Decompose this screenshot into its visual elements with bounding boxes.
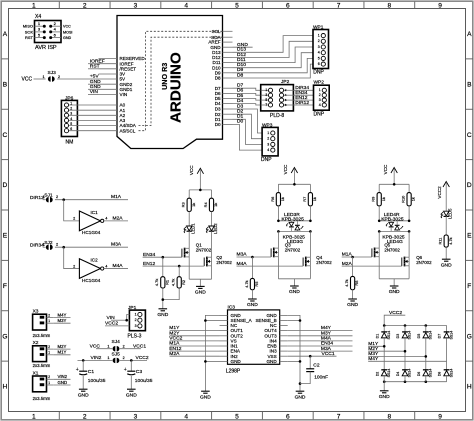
- LED LED2: [211, 212, 213, 227]
- wire R1/R2 to ground: [162, 288, 164, 309]
- wire M3Y from IC3 OUT3: [288, 335, 353, 337]
- diode D8 SS14: [446, 361, 448, 370]
- svg-text:SJ5: SJ5: [112, 352, 121, 358]
- wire GND: [53, 384, 70, 386]
- wire sources to GND rail: [378, 257, 380, 279]
- ground (IC3 right): [296, 390, 305, 392]
- svg-text:2: 2: [318, 39, 320, 43]
- svg-text:E: E: [3, 233, 8, 240]
- svg-text:M3Y: M3Y: [58, 318, 67, 323]
- svg-text:1k: 1k: [312, 197, 317, 201]
- wire M4A to IC3 IN4: [288, 340, 353, 342]
- svg-text:1: 1: [32, 2, 36, 9]
- svg-text:VCC: VCC: [383, 164, 388, 174]
- wire JP6 pin 1 to A0: [69, 104, 99, 106]
- svg-text:6: 6: [318, 62, 320, 66]
- svg-text:C3: C3: [136, 369, 143, 375]
- svg-text:5: 5: [318, 56, 320, 60]
- wire IC3 left GND bus: [205, 315, 219, 391]
- wire LED5 to R11: [445, 216, 447, 235]
- svg-text:1: 1: [48, 381, 50, 385]
- svg-text:GND: GND: [347, 302, 358, 308]
- svg-text:VCC2: VCC2: [105, 321, 118, 327]
- wire R11 to ground: [445, 247, 447, 259]
- svg-text:VCC2: VCC2: [136, 355, 149, 361]
- svg-text:DNP: DNP: [313, 70, 324, 76]
- svg-text:D2: D2: [237, 109, 244, 115]
- svg-text:KPB-3025: KPB-3025: [282, 216, 305, 222]
- svg-text:H: H: [3, 384, 8, 391]
- dashed link A4/SDA to SDA: [139, 37, 223, 125]
- transistor Q4 2N7002: [309, 231, 311, 257]
- svg-text:D13: D13: [237, 47, 246, 53]
- wire M1A to Q5 gate: [342, 256, 372, 258]
- svg-text:D0: D0: [237, 119, 244, 125]
- svg-text:M4Y: M4Y: [368, 356, 379, 362]
- svg-text:GND: GND: [266, 359, 277, 364]
- ground (R8): [348, 298, 357, 300]
- svg-text:D0: D0: [215, 122, 221, 127]
- svg-text:M3A: M3A: [237, 252, 248, 258]
- wire EN34 to Q1 gate: [143, 256, 182, 258]
- svg-text:M1A: M1A: [111, 194, 122, 200]
- power VCC arrow (block LED1): [197, 168, 203, 174]
- svg-text:2: 2: [123, 356, 125, 360]
- svg-text:IC1: IC1: [91, 210, 99, 215]
- svg-text:4: 4: [105, 264, 107, 268]
- svg-text:1k: 1k: [411, 197, 416, 201]
- svg-text:4.7k: 4.7k: [171, 279, 176, 286]
- svg-text:G: G: [2, 333, 7, 340]
- svg-text:OUT1: OUT1: [231, 328, 244, 333]
- wire diode array VCC2 rail: [384, 325, 446, 327]
- svg-text:9: 9: [438, 2, 442, 9]
- svg-text:4: 4: [319, 103, 321, 107]
- resistor R11 4.7k: [444, 235, 448, 247]
- svg-text:EN12: EN12: [143, 261, 156, 267]
- svg-text:D: D: [467, 182, 472, 189]
- svg-text:M2A: M2A: [342, 261, 353, 267]
- svg-text:SS14: SS14: [449, 331, 453, 340]
- svg-text:M2Y: M2Y: [368, 346, 379, 352]
- wire D8 to WP1 pin 6: [233, 64, 314, 78]
- capacitor C3 100u/35: [130, 360, 132, 371]
- wire VCC1 to IC3 VSS: [288, 355, 337, 357]
- svg-text:M1A: M1A: [169, 341, 180, 347]
- wire JP6 pin 4 to A3: [69, 119, 99, 121]
- svg-text:D7: D7: [438, 334, 442, 339]
- svg-text:D12: D12: [237, 52, 246, 58]
- wire LED bottom rail: [379, 230, 409, 232]
- svg-text:R6: R6: [270, 197, 275, 202]
- wire D13 to WP1 pin 1: [233, 36, 314, 53]
- svg-text:VIN: VIN: [90, 89, 99, 95]
- svg-text:R8: R8: [354, 281, 359, 286]
- svg-text:PLS-3: PLS-3: [128, 333, 142, 339]
- svg-text:7: 7: [337, 414, 341, 421]
- svg-text:M1Y: M1Y: [169, 325, 180, 331]
- svg-text:5: 5: [70, 122, 72, 126]
- svg-text:C: C: [467, 132, 472, 139]
- ground (R1 R2): [159, 308, 168, 310]
- svg-text:2: 2: [135, 318, 137, 322]
- svg-text:M1A: M1A: [342, 252, 353, 258]
- svg-text:D11: D11: [237, 57, 246, 63]
- svg-text:SCK: SCK: [25, 29, 34, 34]
- wire M1Y: [53, 354, 70, 356]
- wire VCC rail: [379, 183, 409, 185]
- svg-text:7: 7: [265, 103, 267, 107]
- svg-text:2x3.5mm: 2x3.5mm: [33, 396, 51, 401]
- svg-text:2x3.5mm: 2x3.5mm: [33, 333, 51, 338]
- wire D12 to WP1 pin 2: [233, 41, 314, 57]
- wire diode array to ground: [383, 382, 385, 391]
- svg-text:2N7002: 2N7002: [285, 247, 301, 252]
- svg-text:1: 1: [319, 88, 321, 92]
- svg-text:E: E: [467, 233, 472, 240]
- svg-text:2: 2: [56, 195, 58, 199]
- svg-text:2: 2: [73, 264, 75, 268]
- svg-text:D1: D1: [237, 114, 244, 120]
- svg-text:PLD-8: PLD-8: [270, 113, 284, 119]
- svg-text:6: 6: [286, 414, 290, 421]
- svg-text:3: 3: [134, 2, 138, 9]
- svg-text:D3: D3: [237, 103, 244, 109]
- svg-text:2N7002: 2N7002: [416, 260, 432, 265]
- wire DIR34 JP2 to WP2: [293, 89, 313, 91]
- svg-text:C: C: [3, 132, 8, 139]
- wire M4A to Q4 gate: [237, 265, 304, 267]
- svg-text:6: 6: [70, 127, 72, 131]
- svg-text:GND: GND: [247, 302, 258, 308]
- svg-text:D7: D7: [237, 83, 244, 89]
- diode D3 SS14: [404, 326, 406, 332]
- wire LED top rail: [378, 206, 380, 221]
- frame column ticks and numbers: [58, 2, 60, 9]
- wire M4Y from IC3 OUT4: [288, 330, 353, 332]
- power VCC2 arrow: [443, 182, 449, 188]
- svg-text:MISO: MISO: [23, 24, 33, 29]
- svg-text:R5: R5: [254, 282, 259, 287]
- diode D4 SS14: [404, 351, 406, 370]
- svg-text:D4: D4: [396, 372, 400, 377]
- wire M3A to IC3 IN3: [288, 350, 353, 352]
- svg-text:R9: R9: [371, 197, 376, 202]
- svg-text:1: 1: [107, 356, 109, 360]
- svg-text:H: H: [467, 384, 472, 391]
- svg-text:9: 9: [438, 414, 442, 421]
- svg-text:VCC: VCC: [63, 25, 71, 29]
- svg-text:VCC: VCC: [22, 76, 33, 82]
- svg-text:7: 7: [337, 2, 341, 9]
- svg-text:2: 2: [73, 217, 75, 221]
- transistor Q2 2N7002: [211, 231, 213, 257]
- svg-text:2: 2: [83, 414, 87, 421]
- wire diode array GND rail: [384, 381, 446, 383]
- svg-text:SS14: SS14: [429, 369, 433, 378]
- module A1 ARDUINO UNO R3 body: [117, 16, 223, 149]
- svg-text:M4A: M4A: [321, 336, 332, 342]
- svg-text:GND: GND: [90, 79, 101, 85]
- ground (C1): [79, 388, 88, 390]
- svg-text:LED1: LED1: [191, 223, 196, 234]
- wire D10 to WP1 pin 4: [233, 53, 314, 68]
- svg-text:GND: GND: [157, 312, 168, 318]
- svg-text:1: 1: [43, 195, 45, 199]
- svg-text:VCC: VCC: [189, 165, 194, 175]
- wire JP6 pin 6 to A5: [69, 130, 99, 132]
- svg-text:RST: RST: [25, 35, 34, 40]
- svg-text:VIN: VIN: [107, 315, 116, 321]
- svg-text:KPB-3025: KPB-3025: [381, 216, 404, 222]
- wire EN34 to IC3 ENB: [288, 345, 353, 347]
- svg-text:+5V: +5V: [90, 74, 100, 80]
- svg-text:2N7002: 2N7002: [316, 260, 332, 265]
- svg-text:100u/35: 100u/35: [135, 378, 153, 384]
- svg-text:M2A: M2A: [169, 351, 180, 357]
- svg-text:SS14: SS14: [387, 369, 391, 378]
- wire D1 to WP3 pin 3: [233, 119, 263, 144]
- capacitor C2 100nF: [309, 356, 311, 369]
- wire EN12 to Q2 gate: [143, 265, 205, 267]
- wire M2Y to diode column 2: [368, 350, 405, 352]
- wire DIR12 JP2 to WP2: [293, 104, 313, 106]
- svg-text:3: 3: [134, 414, 138, 421]
- svg-text:3: 3: [70, 112, 72, 116]
- svg-text:R3: R3: [181, 202, 186, 207]
- svg-text:2N7002: 2N7002: [216, 260, 232, 265]
- svg-text:R1: R1: [164, 280, 169, 285]
- svg-text:VIN: VIN: [120, 92, 128, 97]
- ground (C3): [127, 388, 136, 390]
- svg-text:2: 2: [56, 243, 58, 247]
- power VCC arrow (block LED4R): [391, 168, 397, 174]
- svg-text:100nF: 100nF: [314, 374, 328, 380]
- net label IOREF: [88, 63, 99, 65]
- svg-text:M4A: M4A: [113, 263, 124, 269]
- wire D7 to JP2: [233, 88, 263, 90]
- svg-text:M2Y: M2Y: [169, 331, 180, 337]
- svg-text:HC1G04: HC1G04: [82, 278, 101, 283]
- net label GND (GND2): [88, 83, 99, 85]
- wire M2Y to IC3 OUT2: [170, 335, 220, 337]
- svg-text:1k: 1k: [381, 197, 386, 201]
- svg-text:DIR12: DIR12: [295, 100, 309, 106]
- transistor Q5 2N7002: [378, 231, 380, 248]
- svg-text:D3: D3: [396, 334, 400, 339]
- wire M4Y: [53, 317, 70, 319]
- wire R5 to ground: [251, 290, 253, 299]
- svg-text:G: G: [467, 333, 472, 340]
- svg-text:3: 3: [319, 98, 321, 102]
- wire LED bottom rail: [278, 230, 310, 232]
- svg-text:X4: X4: [35, 14, 41, 20]
- svg-text:1: 1: [48, 351, 50, 355]
- wire EN34 JP2 to WP2: [293, 94, 313, 96]
- svg-text:4: 4: [105, 217, 107, 221]
- svg-text:D: D: [3, 182, 8, 189]
- net label GND (GND1): [88, 88, 99, 90]
- IC3 pin stubs and labels: [220, 314, 228, 316]
- svg-text:VCC1: VCC1: [322, 351, 335, 357]
- wire M1A to IC3 IN1: [170, 345, 220, 347]
- wire VCC2 from SJ5: [120, 359, 147, 361]
- wire +5V: [57, 78, 99, 80]
- svg-text:IOREF: IOREF: [90, 58, 105, 64]
- wire D5 to JP2: [233, 99, 263, 101]
- svg-text:VCC2: VCC2: [437, 186, 442, 199]
- wire M3A: [55, 246, 128, 248]
- svg-text:100u/35: 100u/35: [88, 378, 106, 384]
- svg-text:6: 6: [286, 2, 290, 9]
- svg-text:NM: NM: [66, 140, 74, 146]
- wire EN12 to IC3 ENA: [170, 350, 220, 352]
- svg-text:RST: RST: [90, 64, 100, 70]
- ground (LED5): [442, 258, 451, 260]
- svg-text:AVR ISP: AVR ISP: [35, 45, 57, 51]
- svg-text:2x3.5mm: 2x3.5mm: [33, 363, 51, 368]
- diode D1 SS14: [383, 326, 385, 332]
- wire JP6 pin 2 to A1: [69, 109, 99, 111]
- svg-text:EN34: EN34: [321, 341, 334, 347]
- diode D5 SS14: [425, 326, 427, 332]
- svg-text:GND: GND: [231, 359, 242, 364]
- wire JP6 pin 3 to A2: [69, 114, 99, 116]
- svg-text:4.7k: 4.7k: [344, 279, 349, 286]
- svg-text:B: B: [467, 81, 472, 88]
- dashed link A5/SCL to SCL: [139, 31, 223, 130]
- svg-text:M3Y: M3Y: [321, 331, 332, 337]
- svg-text:4: 4: [267, 148, 269, 152]
- LED LED5: [444, 211, 449, 216]
- ground (diode array): [380, 390, 389, 392]
- svg-text:5: 5: [235, 414, 239, 421]
- wire VCC2 to JP1 pin 3: [105, 325, 129, 327]
- svg-text:1: 1: [48, 319, 50, 323]
- svg-text:D4: D4: [237, 98, 244, 104]
- svg-text:2: 2: [48, 313, 50, 317]
- svg-text:3: 3: [267, 142, 269, 146]
- svg-text:GND: GND: [200, 394, 211, 400]
- wire LED top rail: [277, 206, 279, 221]
- svg-text:1: 1: [107, 344, 109, 348]
- svg-text:M4Y: M4Y: [58, 312, 67, 317]
- svg-text:2: 2: [48, 375, 50, 379]
- svg-text:2N7002: 2N7002: [196, 247, 212, 252]
- wire M4A from IC2 output: [104, 268, 128, 270]
- svg-text:MOSI: MOSI: [63, 30, 72, 34]
- resistor R6 1k: [277, 184, 279, 192]
- svg-text:LED5: LED5: [448, 208, 453, 219]
- svg-text:VCC1: VCC1: [133, 343, 146, 349]
- arduino right pin stubs and labels: [223, 30, 233, 32]
- svg-text:D8: D8: [215, 76, 221, 81]
- svg-text:2N7002: 2N7002: [384, 247, 400, 252]
- svg-text:VCC: VCC: [283, 164, 288, 174]
- resistor R7 1k: [309, 184, 311, 192]
- svg-text:GND: GND: [58, 380, 68, 385]
- svg-text:R10: R10: [401, 195, 406, 203]
- svg-text:SS14: SS14: [429, 331, 433, 340]
- svg-text:DNP: DNP: [261, 157, 272, 163]
- svg-text:1k: 1k: [191, 203, 196, 207]
- net label VIN: [88, 94, 99, 96]
- svg-text:GND: GND: [63, 36, 72, 40]
- arduino left pin stubs and labels: [99, 58, 118, 60]
- svg-text:+: +: [124, 367, 127, 373]
- wire M4Y to diode column 4: [368, 360, 446, 362]
- svg-text:M2Y: M2Y: [58, 344, 67, 349]
- wire M3A to Q3 gate: [237, 256, 272, 258]
- wire M1A: [55, 199, 128, 201]
- svg-text:2: 2: [48, 345, 50, 349]
- wire D11 to WP1 pin 3: [233, 47, 314, 63]
- wire sources to GND rail: [188, 257, 190, 279]
- svg-text:SS14: SS14: [387, 331, 391, 340]
- svg-text:D1: D1: [375, 334, 379, 339]
- svg-text:C1: C1: [88, 369, 95, 375]
- wire VIN2: [53, 378, 70, 380]
- wire M3Y: [53, 322, 70, 324]
- svg-text:C2: C2: [313, 362, 320, 368]
- svg-text:2: 2: [319, 93, 321, 97]
- wire VCC1 from SJ4: [120, 348, 141, 350]
- svg-text:GND: GND: [441, 262, 452, 268]
- svg-text:1: 1: [318, 34, 320, 38]
- svg-text:8: 8: [387, 2, 391, 9]
- resistor R5 4.7k: [251, 257, 253, 278]
- wire D3 to WP3 pin 1: [233, 109, 263, 133]
- wire D4 to JP2: [233, 104, 263, 105]
- ground (block LED4R): [390, 285, 399, 287]
- net label GND stub (arduino GND): [233, 46, 253, 48]
- svg-text:4: 4: [184, 2, 188, 9]
- wire M2Y: [53, 348, 70, 350]
- wire M3Y to diode column 3: [368, 355, 426, 357]
- svg-text:5: 5: [235, 2, 239, 9]
- svg-text:LED2: LED2: [213, 223, 218, 234]
- svg-text:4: 4: [184, 414, 188, 421]
- wire D9 to WP1 pin 5: [233, 58, 314, 72]
- frame row ticks and letters: [2, 58, 9, 60]
- svg-text:8: 8: [387, 414, 391, 421]
- svg-text:GND: GND: [78, 392, 89, 398]
- svg-text:D6: D6: [417, 372, 421, 377]
- transistor Q6 2N7002: [408, 231, 410, 257]
- svg-text:1: 1: [32, 414, 36, 421]
- svg-text:1: 1: [135, 312, 137, 316]
- svg-text:1k: 1k: [213, 203, 218, 207]
- svg-text:R11: R11: [438, 238, 443, 245]
- resistor R4 1k: [211, 190, 213, 198]
- svg-text:SS14: SS14: [449, 369, 453, 378]
- resistor R9 1k: [378, 184, 380, 192]
- svg-text:3: 3: [318, 45, 320, 49]
- svg-text:F: F: [3, 283, 7, 290]
- svg-text:D5: D5: [417, 334, 421, 339]
- svg-text:A5/SCL: A5/SCL: [120, 128, 136, 133]
- wire EN12 JP2 to WP2: [293, 99, 313, 101]
- svg-text:D10: D10: [237, 62, 246, 68]
- svg-text:2: 2: [83, 2, 87, 9]
- diode D6 SS14: [425, 356, 427, 369]
- wire D0 to WP3 pin 4: [233, 124, 263, 150]
- svg-text:M1Y: M1Y: [58, 350, 67, 355]
- svg-text:D2: D2: [375, 372, 379, 377]
- wire M2A to IC3 IN2: [170, 355, 220, 357]
- svg-text:SS14: SS14: [408, 369, 412, 378]
- LED LED1: [188, 212, 190, 227]
